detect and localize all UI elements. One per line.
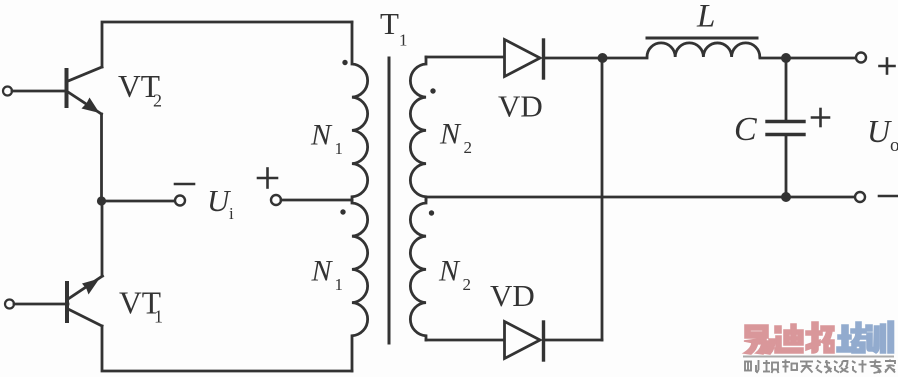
transformer T1 secondary upper winding N2 bbox=[410, 57, 426, 200]
capacitor C bbox=[767, 122, 804, 135]
polarity dot N1 lower bbox=[340, 209, 345, 214]
transistor VT2 bbox=[3, 67, 102, 114]
wire VT2 emitter down to center node bbox=[100, 114, 103, 201]
terminal Ui plus bbox=[271, 195, 281, 205]
diode VD top bbox=[505, 40, 544, 79]
terminal output minus bbox=[855, 192, 865, 202]
wire secondary top to diode bbox=[426, 56, 504, 59]
label minus (output) bbox=[879, 195, 897, 198]
svg-text:VD: VD bbox=[498, 89, 543, 124]
wire diode to node bbox=[545, 57, 602, 60]
label N2 lower bbox=[438, 255, 471, 295]
watermark char 拓 bbox=[806, 322, 834, 353]
svg-text:N: N bbox=[311, 255, 334, 288]
polarity dot N2 upper bbox=[430, 88, 435, 93]
svg-text:U: U bbox=[867, 113, 892, 149]
subtitle char 天 bbox=[800, 362, 813, 373]
label VT1 bbox=[119, 286, 163, 327]
svg-text:1: 1 bbox=[335, 275, 344, 294]
watermark char 培 bbox=[837, 322, 866, 353]
wire to Ui minus terminal bbox=[101, 200, 174, 203]
wire bottom diode cathode to bus bbox=[545, 339, 602, 342]
wire Ui plus to transformer center tap bbox=[281, 199, 352, 202]
svg-text:N: N bbox=[310, 119, 333, 152]
watermark logo 易迪拓培训 (drawn strokes) bbox=[743, 321, 895, 373]
label minus (Ui) bbox=[175, 183, 194, 186]
watermark char 易 bbox=[744, 325, 775, 354]
wire node to inductor bbox=[602, 57, 647, 60]
transformer T1 primary lower winding N1 bbox=[352, 200, 368, 371]
subtitle char 设 bbox=[834, 361, 849, 373]
svg-text:1: 1 bbox=[399, 31, 408, 50]
terminal Ui minus bbox=[175, 196, 185, 206]
transformer T1 secondary lower winding N2 bbox=[410, 200, 426, 340]
transformer T1 primary upper winding N1 bbox=[352, 22, 368, 200]
subtitle char 家 bbox=[885, 360, 895, 373]
watermark rule bbox=[743, 356, 894, 358]
svg-text:L: L bbox=[696, 0, 715, 35]
label N2 upper bbox=[439, 118, 472, 158]
subtitle char 计 bbox=[852, 360, 867, 373]
svg-text:o: o bbox=[890, 135, 898, 156]
watermark char 迪 bbox=[775, 324, 803, 353]
svg-text:1: 1 bbox=[335, 139, 344, 158]
wire cathode bus vertical bbox=[601, 58, 604, 340]
label plus (Ui) bbox=[258, 169, 277, 188]
label N1 lower bbox=[311, 255, 344, 295]
watermark char 训 bbox=[866, 321, 894, 353]
label Uo bbox=[867, 113, 898, 156]
svg-text:VD: VD bbox=[490, 278, 535, 313]
wire center tap to output minus (bottom right rail) bbox=[426, 196, 854, 199]
label plus (capacitor) bbox=[812, 109, 829, 126]
transformer core bbox=[388, 58, 391, 343]
svg-text:i: i bbox=[229, 204, 234, 223]
polarity dot N2 lower bbox=[429, 210, 434, 215]
node capacitor bottom junction bbox=[781, 192, 791, 202]
inductor L bbox=[647, 43, 760, 57]
svg-text:N: N bbox=[439, 118, 462, 151]
svg-text:1: 1 bbox=[154, 307, 163, 327]
subtitle char 射 bbox=[745, 360, 759, 373]
inductor L core bar bbox=[647, 37, 757, 40]
svg-text:C: C bbox=[734, 111, 757, 148]
polarity dot N1 upper bbox=[342, 60, 347, 65]
subtitle char 线 bbox=[816, 360, 832, 373]
node center junction bbox=[97, 196, 106, 205]
svg-text:2: 2 bbox=[153, 91, 162, 111]
svg-text:N: N bbox=[438, 255, 461, 288]
wire inductor to output plus bbox=[760, 57, 855, 60]
label Ui bbox=[207, 183, 234, 223]
wire top rail (VT2 collector to transformer) bbox=[102, 22, 352, 67]
subtitle char 和 bbox=[782, 360, 797, 373]
terminal output plus bbox=[856, 53, 866, 63]
label plus (output) bbox=[880, 59, 895, 74]
wire VT1 collector to bottom rail bbox=[102, 326, 352, 371]
node diode cathode junction bbox=[598, 53, 608, 63]
svg-text:2: 2 bbox=[464, 138, 473, 157]
label N1 upper bbox=[310, 119, 343, 159]
wire VT1 emitter up to center node bbox=[101, 201, 104, 276]
label VT2 bbox=[118, 69, 162, 111]
svg-text:2: 2 bbox=[463, 275, 472, 294]
wire secondary bottom to diode bbox=[426, 339, 504, 342]
wire node to capacitor bbox=[785, 58, 788, 120]
wire capacitor to bottom rail bbox=[785, 137, 788, 198]
diode VD bottom bbox=[505, 322, 544, 361]
svg-text:T: T bbox=[380, 6, 399, 41]
subtitle char 频 bbox=[763, 360, 779, 373]
watermark subtitle 射频和天线设计专家 (drawn strokes) bbox=[745, 360, 895, 374]
transistor VT1 bbox=[5, 276, 103, 326]
subtitle char 专 bbox=[870, 360, 882, 374]
label T1 bbox=[380, 6, 408, 50]
node LC junction bbox=[781, 53, 791, 63]
